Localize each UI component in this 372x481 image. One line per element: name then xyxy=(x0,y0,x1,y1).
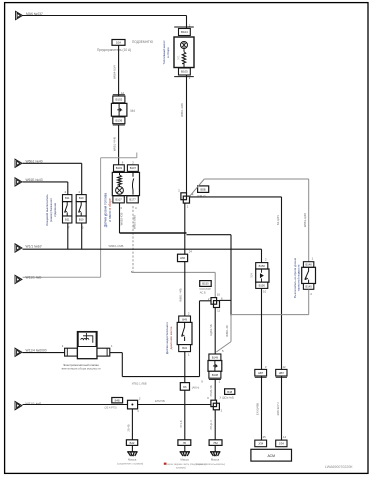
wire x261 down to ECM xyxy=(261,288,263,440)
solenoid right terminal xyxy=(97,348,110,356)
svg-text:Датчик недостаточного: Датчик недостаточного xyxy=(165,322,169,354)
fuel pump assembly M1 xyxy=(174,37,194,68)
svg-text:В102: В102 xyxy=(115,98,122,102)
svg-text:12: 12 xyxy=(282,365,286,369)
svg-text:АСМ: АСМ xyxy=(267,454,275,458)
connector B105 fuel pump bottom xyxy=(179,68,191,75)
svg-text:Э1Ч: Э1Ч xyxy=(251,273,254,278)
connector B107 sender top-right xyxy=(127,165,138,172)
svg-text:ЕДБ2-ЧБ: ЕДБ2-ЧБ xyxy=(209,324,213,336)
wire junction2 down to ground xyxy=(214,410,216,440)
page-link arrow МАК №037 xyxy=(16,11,23,19)
inline connector assembly B149/B138 xyxy=(208,361,222,372)
connector B103 sender top-left xyxy=(114,165,125,172)
wire y376 to junction arm xyxy=(122,376,199,378)
svg-text:В105: В105 xyxy=(181,70,188,74)
wire top feed drop to fuel pump xyxy=(186,16,188,29)
svg-text:J/34: J/34 xyxy=(279,442,285,446)
sender signal wire dashed gray xyxy=(132,206,134,272)
svg-text:W11/1 №Б: W11/1 №Б xyxy=(26,276,42,280)
connector B10 switch2 top xyxy=(76,195,86,202)
svg-text:24: 24 xyxy=(189,250,193,254)
svg-text:М4: М4 xyxy=(131,109,136,113)
red reference mark xyxy=(164,463,167,465)
wire down x281 to ECM xyxy=(281,197,283,440)
page-link arrow W6Б1 №40 xyxy=(15,159,22,167)
wire x199.5 up to junction left arm xyxy=(199,301,201,377)
wire from arrow1 xyxy=(23,162,82,164)
connector sender bottom-right xyxy=(127,196,139,203)
page-link arrow W61Б №43 xyxy=(15,178,22,186)
svg-text:В10: В10 xyxy=(79,196,84,200)
svg-text:В34: В34 xyxy=(182,346,187,350)
page-link arrow W11/4 xyxy=(15,348,22,356)
inline connector M4 xyxy=(111,103,127,116)
connector B156 switch bottom xyxy=(256,282,268,288)
svg-text:(соединение с кузовом): (соединение с кузовом) xyxy=(117,462,143,465)
ECM control unit xyxy=(251,449,292,461)
svg-text:ПОДЗЕМНТЮ: ПОДЗЕМНТЮ xyxy=(132,40,154,44)
svg-text:В107: В107 xyxy=(130,166,137,170)
svg-text:Б4-Ц/4Ч: Б4-Ц/4Ч xyxy=(276,215,280,225)
sender signal wire horizontal (gray) xyxy=(132,271,216,273)
svg-text:в сборе: в сборе xyxy=(166,47,170,58)
svg-text:В11: В11 xyxy=(65,196,70,200)
svg-text:W6Б3-ЮБ: W6Б3-ЮБ xyxy=(120,212,124,225)
wire sender ground lead xyxy=(119,203,121,233)
svg-text:В149: В149 xyxy=(212,355,219,359)
svg-text:2Б 4Б: 2Б 4Б xyxy=(127,424,131,431)
brake fluid level switch xyxy=(256,269,269,282)
svg-text:НБТ: НБТ xyxy=(279,371,285,375)
connector B138 xyxy=(209,371,221,379)
svg-text:W11/4 №6000: W11/4 №6000 xyxy=(26,349,47,353)
svg-text:АС.Б: АС.Б xyxy=(200,291,206,295)
svg-text:W11/1 №Б: W11/1 №Б xyxy=(26,402,42,406)
svg-text:отделения: отделения xyxy=(53,203,57,217)
connector box B6 on pump wire xyxy=(180,383,189,391)
gray wire y314 handbrake return xyxy=(231,314,309,316)
wire pump lower x184.8 xyxy=(184,203,186,316)
svg-text:LWA690070220К: LWA690070220К xyxy=(325,465,353,469)
connector box Б42 ground xyxy=(126,440,137,446)
svg-text:10А: 10А xyxy=(116,41,121,45)
svg-text:W6Б/1-СМБ: W6Б/1-СМБ xyxy=(109,244,124,248)
svg-text:тормозной жидкости: тормозной жидкости xyxy=(296,264,300,291)
connector J/34 left xyxy=(255,440,267,447)
wire switch2 down to y249 xyxy=(81,223,83,249)
gray wire y179 to right xyxy=(204,178,308,180)
oil pressure switch assembly xyxy=(177,322,192,344)
switch S2 (right stack) xyxy=(76,202,86,216)
wire solenoid drop x122 xyxy=(121,353,123,377)
gray wire down to junction xyxy=(214,272,216,297)
wire fuse down xyxy=(118,45,120,96)
page-link arrow W11/1 shield xyxy=(15,275,22,283)
svg-text:УОЛ.ЛОР: УОЛ.ЛОР xyxy=(199,287,211,291)
wire down x231 xyxy=(230,235,232,317)
connector B102 xyxy=(113,95,125,103)
connector B136 xyxy=(113,117,125,125)
svg-text:Масса: Масса xyxy=(128,458,137,462)
gray diagonal into B149 xyxy=(216,342,231,352)
svg-text:(АЮч): (АЮч) xyxy=(192,386,200,390)
svg-text:ЛГМ2-ЧБ: ЛГМ2-ЧБ xyxy=(209,385,213,397)
svg-text:Б6: Б6 xyxy=(183,385,187,389)
svg-text:ЛГ1-Б: ЛГ1-Б xyxy=(179,420,183,428)
svg-text:W6Б1-4Б: W6Б1-4Б xyxy=(225,325,229,337)
wire EGM to junction2 xyxy=(138,404,211,406)
wire to solenoid xyxy=(23,352,65,354)
reference box В5Б xyxy=(198,186,209,193)
wire fuel pump down x186 xyxy=(186,75,188,193)
svg-text:В138: В138 xyxy=(212,373,219,377)
svg-text:В156: В156 xyxy=(259,283,266,287)
page-link arrow W1/1 xyxy=(15,244,22,252)
svg-text:7Б2: 7Б2 xyxy=(213,441,218,445)
svg-text:(через двигатель«масса»): (через двигатель«масса») xyxy=(196,463,225,466)
connector sender bottom-left xyxy=(113,196,124,203)
svg-text:10: 10 xyxy=(217,293,221,297)
svg-text:вентиляции сбора мощности: вентиляции сбора мощности xyxy=(62,366,101,370)
svg-text:(СМ.2): (СМ.2) xyxy=(197,194,206,198)
wire junction left arm xyxy=(200,300,212,302)
wire switch1 down to y249 xyxy=(67,223,69,249)
wire junction right arm y300 xyxy=(220,299,232,301)
svg-text:Б42: Б42 xyxy=(130,441,135,445)
svg-text:В150: В150 xyxy=(259,264,266,268)
gray wire B145 down xyxy=(308,289,310,314)
svg-text:W6Б1-Ч/ЧБ: W6Б1-Ч/ЧБ xyxy=(113,137,117,152)
fuse 10A xyxy=(112,40,125,46)
svg-text:В136: В136 xyxy=(115,118,122,122)
connector B149 xyxy=(209,354,221,361)
gray wire x231 lower xyxy=(230,315,232,342)
fuel gauge sender unit assembly xyxy=(112,172,139,195)
wire branch y234 from pump wire xyxy=(187,234,232,236)
connector НБТ left xyxy=(255,369,267,377)
connector B104 fuel pump top xyxy=(174,26,194,28)
svg-text:В10: В10 xyxy=(79,218,84,222)
svg-text:(20.4.Р70): (20.4.Р70) xyxy=(105,405,117,409)
connector B11 switch1 top xyxy=(63,195,72,202)
gray wire down x308 xyxy=(308,179,310,262)
reference box B48 xyxy=(225,389,235,395)
svg-text:Л5: Л5 xyxy=(183,441,187,445)
svg-text:УГ1: УГ1 xyxy=(177,55,180,60)
wire junction down to B149 xyxy=(214,308,216,355)
svg-text:кузовом): кузовом) xyxy=(176,467,186,470)
svg-text:Предохранитель (10 А): Предохранитель (10 А) xyxy=(97,48,131,52)
connector B34 sensor bottom xyxy=(179,345,191,352)
connector B49 sensor top xyxy=(179,316,191,322)
svg-text:25: 25 xyxy=(263,435,267,439)
wire top feed horizontal xyxy=(23,15,187,17)
shield wire loop (gray) xyxy=(136,153,138,158)
svg-text:В145: В145 xyxy=(305,285,312,289)
svg-text:11: 11 xyxy=(217,308,220,312)
wire arrow2 drop xyxy=(67,182,69,195)
solenoid valve L1 xyxy=(77,332,97,359)
wire sender ground to pump wire y233 xyxy=(120,232,187,234)
svg-text:В49: В49 xyxy=(182,317,187,321)
connector НБТ right xyxy=(276,369,287,377)
wire EGM from arrow xyxy=(23,404,128,406)
connector B146 switch top xyxy=(303,262,313,268)
svg-text:В104: В104 xyxy=(181,30,188,34)
wire arrow1 drop xyxy=(81,163,83,194)
wire to fuel gauge unit xyxy=(118,125,120,165)
connector B145 switch bottom xyxy=(303,284,313,290)
wire long horizontal y249 xyxy=(23,248,262,250)
svg-text:W6Б1-БМБ: W6Б1-БМБ xyxy=(133,215,137,229)
wire pump to ground xyxy=(184,390,186,440)
svg-text:10: 10 xyxy=(263,290,267,294)
svg-text:Н66: Н66 xyxy=(180,256,186,260)
wire pump x184.8 to B6 box xyxy=(184,352,186,383)
connector box Н66 on pump wire xyxy=(178,254,188,261)
svg-text:И7Б2 1.ЛББ: И7Б2 1.ЛББ xyxy=(132,382,147,386)
svg-text:ЕББ Ш/УЧ: ЕББ Ш/УЧ xyxy=(276,402,280,415)
inline connector junction 2 (double square) xyxy=(211,400,220,410)
svg-text:В103: В103 xyxy=(116,166,123,170)
solenoid left terminal xyxy=(65,348,78,356)
wire B138 down to junction2 xyxy=(214,380,216,401)
svg-text:В4Б: В4Б xyxy=(115,398,120,402)
reference box В4Б xyxy=(112,398,123,403)
svg-text:В5Б: В5Б xyxy=(201,187,206,191)
svg-text:В48: В48 xyxy=(227,390,232,394)
switch S1 (left stack) xyxy=(63,202,72,216)
connector switch2 bottom xyxy=(76,216,86,223)
shield wire to ground arrow W11/1 xyxy=(23,276,101,278)
page-link arrow W11/1 ground xyxy=(15,401,22,409)
svg-text:и насос в сборе: и насос в сборе xyxy=(108,198,112,222)
svg-text:ЛГЦ1-Ч: ЛГЦ1-Ч xyxy=(209,420,213,430)
ground (body rear) xyxy=(180,450,190,457)
svg-text:Масса: Масса xyxy=(211,458,220,462)
ground (engine) xyxy=(210,450,220,457)
svg-text:В11: В11 xyxy=(65,218,70,222)
svg-text:J/34: J/34 xyxy=(258,442,264,446)
svg-text:W6Б1-Ч4Б: W6Б1-Ч4Б xyxy=(179,288,183,301)
reference box B150 xyxy=(200,281,212,287)
wire y196 to right xyxy=(190,196,282,198)
connector box Л5 ground xyxy=(178,440,191,446)
svg-text:ЕАУ5/49Б: ЕАУ5/49Б xyxy=(255,403,259,415)
wire drop into B150 switch xyxy=(261,249,263,262)
inline connector junction (double square) xyxy=(211,298,220,308)
inline connector junction on EGM wire xyxy=(128,400,138,409)
wire EGM branch down to ground xyxy=(131,409,133,440)
svg-text:давления масла: давления масла xyxy=(169,326,173,349)
shield wire left vertical xyxy=(100,158,102,277)
wire diagonal to gray feed xyxy=(190,179,205,196)
svg-text:ЕГМ 5Б: ЕГМ 5Б xyxy=(155,399,165,403)
ground (body) xyxy=(127,450,137,457)
svg-text:В177: В177 xyxy=(129,198,136,202)
svg-text:В150: В150 xyxy=(202,282,209,286)
connector box 7Б2 ground xyxy=(209,440,222,446)
svg-text:W1/1 №БУ: W1/1 №БУ xyxy=(26,244,43,248)
svg-text:В107: В107 xyxy=(115,198,122,202)
wire solenoid out xyxy=(110,352,123,354)
connector B150 switch top xyxy=(256,263,268,269)
svg-text:В146: В146 xyxy=(305,263,312,267)
svg-text:14: 14 xyxy=(283,435,287,439)
parking brake switch xyxy=(302,267,316,283)
svg-text:Датчик уровня топлива: Датчик уровня топлива xyxy=(104,193,108,227)
wire from arrow2 xyxy=(23,181,68,183)
connector J/34 right xyxy=(276,440,287,447)
connector switch1 bottom xyxy=(63,216,72,223)
svg-text:W6Б1-Ц/4Б: W6Б1-Ц/4Б xyxy=(303,213,307,227)
inline connector junction on pump wire xyxy=(181,193,190,203)
svg-text:НБТ: НБТ xyxy=(258,371,264,375)
svg-text:X (ДСм.№5): X (ДСм.№5) xyxy=(220,396,235,400)
svg-text:W6Б4-Б3/Ч: W6Б4-Б3/Ч xyxy=(113,65,117,79)
svg-text:Масса: Масса xyxy=(180,458,189,462)
svg-text:W6Б1-4/4Б: W6Б1-4/4Б xyxy=(180,103,184,117)
